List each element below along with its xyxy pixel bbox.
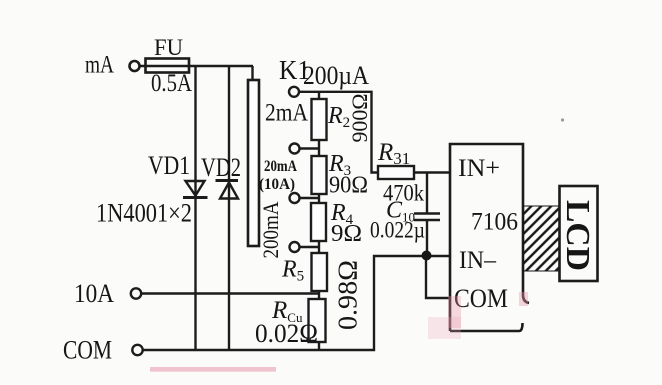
terminal mA bbox=[130, 61, 140, 71]
svg-text:VD1: VD1 bbox=[148, 151, 190, 180]
ribbon hatched connector 7106 to LCD bbox=[524, 206, 560, 271]
artifact pink blob below C10 bbox=[428, 317, 461, 339]
svg-text:200mA: 200mA bbox=[258, 201, 283, 258]
resistor R3 bbox=[312, 156, 327, 194]
svg-text:COM: COM bbox=[454, 284, 508, 313]
svg-text:LCD: LCD bbox=[559, 200, 596, 271]
svg-text:200µA: 200µA bbox=[303, 61, 369, 90]
wire 10A rail bbox=[142, 292, 319, 294]
resistor R5 bbox=[312, 253, 328, 291]
wire COM bottom rail bbox=[144, 256, 451, 350]
svg-text:IN–: IN– bbox=[459, 247, 496, 274]
wire drop into switch bar bbox=[251, 66, 253, 80]
resistor R31 bbox=[378, 166, 414, 179]
diode VD2 bbox=[216, 181, 239, 199]
resistor R4 bbox=[311, 203, 326, 241]
wire C10 top lead bbox=[426, 173, 428, 214]
svg-text:20mA: 20mA bbox=[264, 158, 297, 175]
node junction IN- / COM bbox=[422, 251, 432, 261]
svg-text:10A: 10A bbox=[74, 279, 114, 308]
wire VD1 branch vertical bbox=[194, 66, 196, 350]
artifact pink mark right of COM pin bbox=[519, 292, 528, 306]
LCD module bbox=[560, 186, 598, 281]
K1 contact 2mA bbox=[290, 144, 300, 154]
artifact pink underline bbox=[150, 367, 276, 372]
wire stub 2mA contact bbox=[301, 147, 320, 149]
wire COM stub of 7106 bbox=[426, 256, 450, 298]
wire C10 bottom lead bbox=[426, 221, 428, 257]
svg-text:0.022µ: 0.022µ bbox=[370, 218, 425, 243]
K1 contact 200mA bbox=[290, 242, 300, 252]
wire VD2 branch vertical bbox=[228, 66, 230, 350]
terminal COM bbox=[132, 345, 142, 355]
resistor RCu shunt bbox=[309, 299, 326, 342]
svg-text:0.5A: 0.5A bbox=[151, 70, 192, 97]
K1 contact 200uA bbox=[289, 87, 299, 97]
svg-text:0.02Ω: 0.02Ω bbox=[255, 319, 318, 348]
resistor R2 bbox=[312, 99, 327, 140]
svg-text:1N4001×2: 1N4001×2 bbox=[96, 199, 192, 228]
svg-text:9Ω: 9Ω bbox=[331, 221, 362, 247]
artifact gray speck bbox=[561, 118, 564, 121]
wire mA to fuse and fuse through-line to switch drop bbox=[140, 65, 254, 67]
svg-text:R31: R31 bbox=[377, 139, 410, 168]
svg-text:IN+: IN+ bbox=[458, 155, 500, 182]
svg-text:(10A): (10A) bbox=[259, 176, 295, 193]
svg-text:7106: 7106 bbox=[471, 209, 518, 236]
fuse FU 0.5A bbox=[146, 59, 190, 73]
svg-text:R5: R5 bbox=[281, 257, 304, 285]
svg-text:FU: FU bbox=[154, 35, 183, 60]
svg-text:90Ω: 90Ω bbox=[329, 173, 368, 199]
terminal 10A bbox=[131, 288, 141, 298]
diode VD1 bbox=[183, 181, 208, 198]
K1 contact 20mA bbox=[290, 193, 300, 203]
wire K1 200uA top rail bbox=[300, 92, 378, 173]
svg-text:COM: COM bbox=[63, 336, 112, 365]
wire ladder spine R2..RCu bbox=[318, 92, 320, 350]
wire stub 200mA contact bbox=[301, 246, 320, 248]
svg-text:0.98Ω: 0.98Ω bbox=[333, 260, 363, 330]
svg-text:900Ω: 900Ω bbox=[347, 94, 372, 143]
switch K1 wiper bar bbox=[248, 80, 259, 246]
artifact pink smudge near 7106 bottom left bbox=[448, 296, 461, 328]
wire stub 20mA contact bbox=[301, 197, 320, 199]
svg-text:mA: mA bbox=[85, 52, 114, 79]
svg-text:VD2: VD2 bbox=[201, 153, 241, 182]
op-amp/ADC U1 7106 body bbox=[450, 144, 529, 331]
wire R31 to 7106 IN+ bbox=[414, 171, 450, 173]
svg-text:2mA: 2mA bbox=[265, 100, 308, 127]
capacitor C10 bbox=[414, 214, 440, 221]
